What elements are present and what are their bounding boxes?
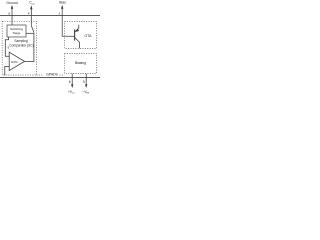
- arrow +V supply: [71, 84, 73, 88]
- dashed chip outline bottom stub left: [37, 74, 44, 76]
- svg-text:GPADS: GPADS: [46, 73, 58, 77]
- dashed box Sampling Comparator (SC): [2, 21, 36, 75]
- transistor Q1 collector: [75, 38, 80, 49]
- dashed box OTA: [65, 22, 97, 49]
- svg-text:Bias: Bias: [59, 1, 66, 5]
- wire -V supply: [85, 74, 87, 85]
- wire node to comparator output riser: [33, 33, 35, 62]
- svg-text:SCPA: SCPA: [11, 60, 18, 64]
- wire non-inverting input to substrate: [5, 66, 10, 75]
- svg-text:Stage: Stage: [13, 31, 21, 35]
- pin 8 arrow (Ground): [11, 5, 13, 9]
- svg-text:5: 5: [83, 80, 85, 84]
- pin 4 arrow (Cext): [30, 5, 32, 9]
- transistor Q1 base bar: [74, 30, 76, 41]
- svg-text:3: 3: [59, 11, 61, 15]
- svg-text:Comparator (SC): Comparator (SC): [9, 44, 33, 48]
- svg-text:Sampling: Sampling: [14, 39, 28, 43]
- svg-text:4: 4: [28, 11, 30, 15]
- dashed box Biasing: [65, 54, 97, 74]
- chip boundary top line: [0, 15, 100, 17]
- wire inverting input from switching stage: [5, 37, 9, 56]
- transistor Q1 emitter: [75, 25, 79, 32]
- dashed chip outline bottom stub right: [60, 74, 65, 76]
- chip boundary bottom line: [0, 77, 100, 79]
- wire Bias pin to transistor base: [62, 8, 74, 36]
- svg-text:9: 9: [8, 46, 10, 50]
- wire Ground pin: [11, 8, 13, 25]
- wire comparator output: [24, 61, 34, 63]
- transistor Q1 emitter arrowhead: [75, 28, 79, 32]
- arrow -V supply: [85, 84, 87, 88]
- pin 3 arrow (Bias): [61, 5, 63, 9]
- svg-text:Biasing: Biasing: [75, 61, 86, 65]
- svg-text:OTA: OTA: [85, 34, 93, 38]
- wire +V supply: [71, 74, 73, 85]
- block Switching Stage: [7, 25, 26, 37]
- svg-text:8: 8: [8, 11, 10, 15]
- switch S1 arm: [31, 26, 34, 33]
- wire Cext pin: [30, 9, 32, 26]
- svg-text:Ground: Ground: [6, 1, 17, 5]
- wire switching stage to node: [26, 32, 34, 34]
- svg-text:6: 6: [69, 80, 71, 84]
- op-amp comparator SCPA: [9, 52, 24, 70]
